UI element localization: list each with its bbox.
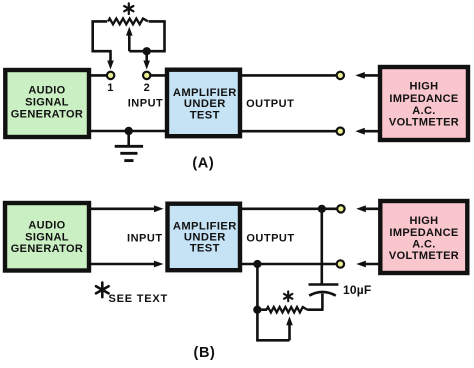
svg-text:GENERATOR: GENERATOR [11,243,83,255]
voltmeter probe arrow bottom (A) [355,128,380,135]
arrow into jack 2 [143,61,150,70]
jack terminal 1 (A) [107,72,114,79]
amplifier under test box (B) [168,204,241,271]
svg-text:10µF: 10µF [343,283,371,297]
wire amplifier output top to terminal (B) [240,208,338,211]
svg-text:SEE TEXT: SEE TEXT [109,293,169,305]
arrow into jack 1 [107,61,114,70]
asterisk marker above potentiometer (B) [284,291,292,301]
potentiometer left lead (B) [257,308,267,311]
svg-text:INPUT: INPUT [127,233,163,245]
wire amplifier output bottom to terminal (B) [240,263,337,266]
svg-text:OUTPUT: OUTPUT [246,233,294,245]
junction dot output bottom (B) [253,260,261,268]
asterisk see-text note [96,283,168,306]
svg-text:(A): (A) [192,156,214,172]
svg-text:SIGNAL: SIGNAL [25,231,69,243]
ground return wire generator to amplifier (A) [89,130,167,133]
wire generator to jack 1 (A) [89,74,107,77]
svg-text:VOLTMETER: VOLTMETER [389,250,459,262]
wire bottom output junction down to potentiometer (B) [256,264,259,341]
svg-text:UNDER: UNDER [184,98,226,110]
voltmeter probe arrow top (B) [356,205,380,212]
voltmeter probe arrow top (A) [355,72,380,79]
svg-text:TEST: TEST [190,109,220,121]
wire amplifier output bottom to terminal (A) [240,130,337,133]
potentiometer right lead wire (A) [147,21,165,51]
input wire top with arrow (B) [89,205,164,212]
ground symbol [115,131,143,161]
svg-text:HIGH: HIGH [410,215,439,227]
voltmeter probe arrow bottom (B) [356,261,380,268]
junction dot potentiometer left (B) [253,306,261,314]
svg-text:IMPEDANCE: IMPEDANCE [389,227,458,239]
svg-text:UNDER: UNDER [184,231,226,243]
svg-text:GENERATOR: GENERATOR [11,109,83,121]
svg-text:2: 2 [144,82,150,94]
wire top output junction down to capacitor (B) [320,209,323,284]
svg-text:OUTPUT: OUTPUT [246,98,294,110]
wire junction to jack 2 (A) [145,51,148,62]
audio signal generator box U1 (A) [5,70,89,137]
audio signal generator box (B) [5,203,89,271]
jack terminal 2 (A) [143,72,150,79]
junction dot wiper to lead (A) [143,47,151,55]
svg-text:AUDIO: AUDIO [28,219,65,231]
svg-text:AUDIO: AUDIO [28,85,65,97]
svg-text:IMPEDANCE: IMPEDANCE [389,93,458,105]
junction dot output top (B) [318,205,326,213]
high impedance AC voltmeter box (A) [380,67,468,140]
svg-text:1: 1 [107,82,113,94]
potentiometer * (B) zigzag body [267,307,308,312]
output terminal bottom (B) [337,260,344,267]
potentiometer right lead to capacitor (B) [307,308,323,311]
potentiometer * (A) zigzag body [108,19,148,25]
svg-text:VOLTMETER: VOLTMETER [389,116,459,128]
svg-text:INPUT: INPUT [128,97,164,109]
svg-text:A.C.: A.C. [412,239,435,251]
potentiometer wiper arrow (B) [256,316,293,340]
asterisk marker above potentiometer (A) [124,3,133,14]
junction dot ground tap (A) [125,127,133,135]
potentiometer wiper arrow (A) [126,27,147,52]
amplifier under test box (A) [167,70,240,137]
high impedance AC voltmeter box (B) [380,201,467,273]
wire jack 2 to amplifier input (A) [150,74,166,77]
svg-text:TEST: TEST [190,243,220,255]
input wire bottom with arrow (B) [89,261,164,268]
svg-text:(B): (B) [194,345,216,361]
output terminal top (B) [337,205,344,212]
output terminal top (A) [337,72,344,79]
svg-text:SIGNAL: SIGNAL [25,97,69,109]
wire amplifier output top to terminal (A) [240,74,337,77]
capacitor C1 10uF [309,285,339,310]
output terminal bottom (A) [337,128,344,135]
potentiometer left lead wire (A) [93,21,111,63]
svg-text:HIGH: HIGH [410,80,439,92]
